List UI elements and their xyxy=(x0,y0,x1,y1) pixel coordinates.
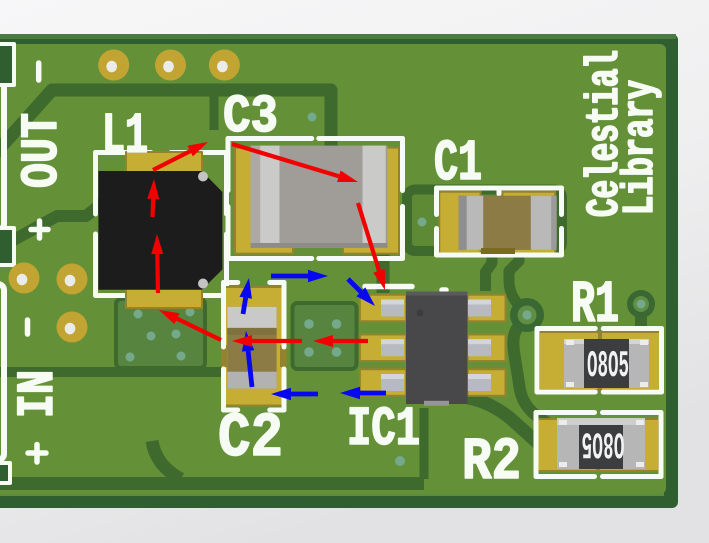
label IN minus xyxy=(25,320,31,334)
wire C1 left pad down xyxy=(486,252,493,291)
label C3 xyxy=(225,95,276,132)
connector mid pad xyxy=(0,228,14,265)
resistor R2 pads xyxy=(537,419,659,471)
label Library xyxy=(620,81,661,212)
label IC1 xyxy=(350,407,418,444)
hole H6 xyxy=(57,312,88,343)
via V2 xyxy=(627,290,655,318)
label C1 xyxy=(436,140,481,180)
wire OUT trace to L1 xyxy=(0,194,114,252)
via V3 xyxy=(395,456,405,466)
inductor L1 body xyxy=(98,171,222,290)
capacitor C1 pads xyxy=(439,192,555,254)
red arrow GND pad to C2 xyxy=(232,335,302,347)
via V5 xyxy=(418,218,427,227)
silkscreen bracket R2 xyxy=(536,413,661,477)
red arrow L1 to C3 xyxy=(153,142,208,170)
silkscreen bracket C1 xyxy=(437,188,562,255)
label R1 xyxy=(574,282,618,321)
label OUT minus xyxy=(36,63,42,80)
thermal pad GND right of C2 xyxy=(293,303,357,369)
red arrow IC1 to GND pad xyxy=(313,335,368,347)
wire stub to L1 top xyxy=(210,92,219,130)
connector IN pad xyxy=(0,463,10,483)
silkscreen bracket L1 xyxy=(96,153,227,296)
silkscreen bracket C2 xyxy=(224,283,285,411)
capacitor C3 pads xyxy=(235,148,399,254)
blue arrow IC1 bottom left xyxy=(340,387,386,399)
label OUT xyxy=(21,114,56,186)
hole H3 xyxy=(209,50,240,81)
blue arrow into IC1 pin xyxy=(348,279,375,306)
label R2 xyxy=(465,438,518,478)
red arrow across C3 xyxy=(232,144,358,182)
resistor R2 body xyxy=(557,418,645,469)
IC1 pads xyxy=(360,295,506,396)
hole H2 xyxy=(155,50,186,81)
label IN plus xyxy=(28,445,46,463)
capacitor C1 body xyxy=(459,196,557,254)
wire IN trace to C2 xyxy=(0,367,226,377)
IC1 leads xyxy=(381,300,491,392)
via V4 xyxy=(308,113,317,122)
copper pour under L1 bottom pad xyxy=(116,299,205,368)
copper pour ring around C1 (SW node) xyxy=(407,190,562,252)
wire C1 right pad to via xyxy=(509,252,526,313)
wire C3 right pad to IC1 xyxy=(377,248,390,293)
hole H4 xyxy=(9,263,40,294)
red arrow C3 to IC1 xyxy=(358,203,385,290)
IC1 body xyxy=(406,292,468,406)
IC1 silkscreen pin1 bar xyxy=(365,287,446,291)
connector OUT silkscreen xyxy=(0,67,4,230)
capacitor C2 pad xyxy=(221,287,287,406)
silkscreen bracket R1 xyxy=(537,329,662,393)
blue arrow C2 top up xyxy=(240,278,252,314)
red arrow L1 current up lower xyxy=(151,234,163,293)
red arrow C2 to L1 pad xyxy=(159,310,221,340)
capacitor C3 body xyxy=(251,146,388,248)
blue arrow to IC1 top xyxy=(271,270,328,282)
wire via to R2 xyxy=(513,316,556,430)
label L1 xyxy=(106,114,146,152)
via V1 xyxy=(510,298,544,332)
red arrow L1 current up upper xyxy=(147,179,159,217)
resistor R1 body xyxy=(564,339,649,388)
silkscreen bracket C3 xyxy=(228,139,403,259)
hole H5 xyxy=(57,264,88,295)
label IN xyxy=(18,373,52,415)
wire GND trace bottom xyxy=(0,408,424,484)
inductor L1 pads xyxy=(126,152,202,308)
label C2 xyxy=(220,413,280,456)
wire via2 to R1 xyxy=(635,304,647,332)
hole H1 xyxy=(98,50,129,81)
resistor R1 pads xyxy=(539,332,661,390)
label OUT plus xyxy=(31,221,48,238)
label Celestial xyxy=(584,51,618,216)
PCB top face xyxy=(0,44,666,494)
capacitor C2 body xyxy=(227,307,276,389)
blue arrow to C2 bottom xyxy=(271,388,318,400)
connector IN silkscreen xyxy=(0,284,4,460)
blue arrow C2 current up xyxy=(242,331,254,387)
wire IC1 to R2 feedback xyxy=(463,394,540,445)
wire GND trace top xyxy=(0,90,331,157)
connector OUT pad xyxy=(0,44,14,85)
